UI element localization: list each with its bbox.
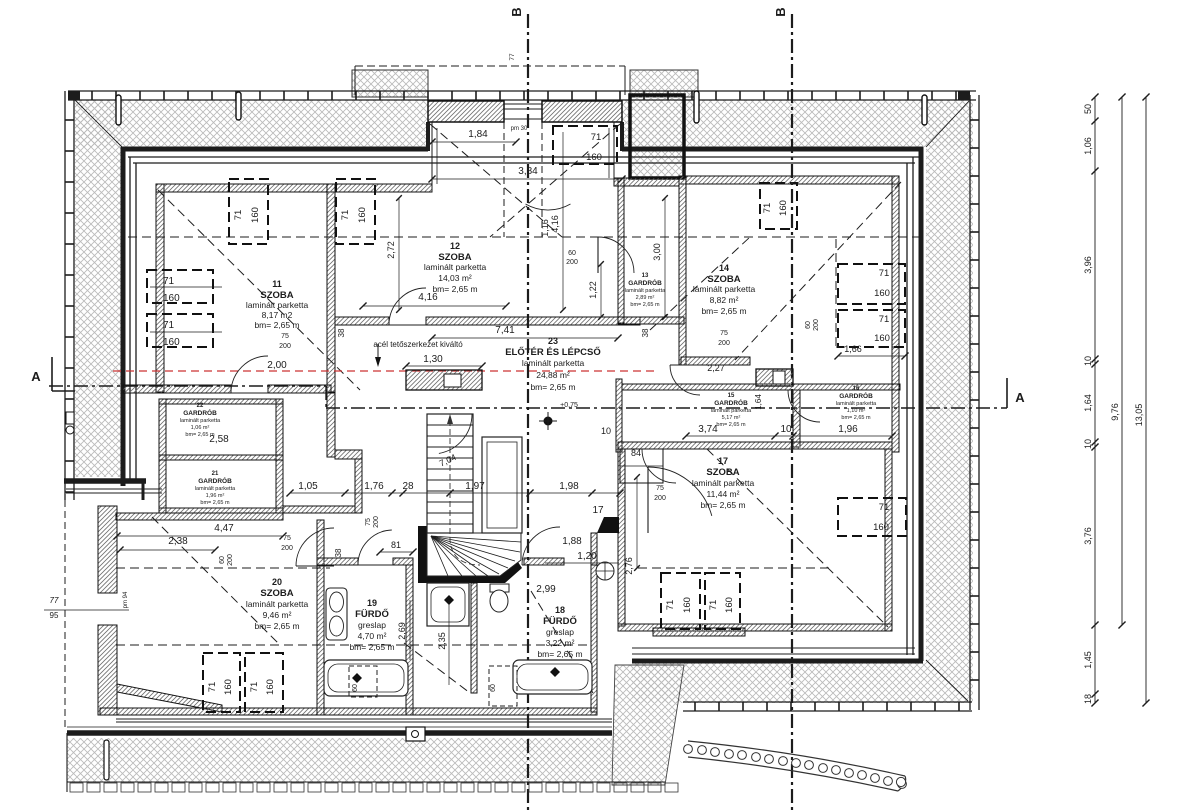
bath19 bathtub <box>324 660 408 696</box>
wall rooms 20-19 bottom south <box>100 708 597 715</box>
eave band corner caps <box>68 91 80 100</box>
eave band right <box>969 95 971 710</box>
svg-text:60: 60 <box>352 684 359 692</box>
svg-text:1,76: 1,76 <box>364 481 384 492</box>
svg-text:75: 75 <box>656 485 664 492</box>
stairwell landing <box>482 437 522 533</box>
svg-text:160: 160 <box>874 333 890 344</box>
rot dim lines <box>398 198 400 310</box>
svg-text:FÜRDŐ: FÜRDŐ <box>543 615 577 627</box>
hip diagonal room20 <box>152 517 280 645</box>
svg-text:GARDRÓB: GARDRÓB <box>628 278 662 287</box>
wall room20 north <box>116 513 283 520</box>
knee line vertical x836 <box>835 239 837 347</box>
svg-text:1,06: 1,06 <box>1083 137 1093 155</box>
roof overhang band top-left <box>75 100 428 147</box>
lintel hatched box room16 <box>756 369 793 386</box>
svg-text:75: 75 <box>283 535 291 542</box>
svg-text:71: 71 <box>233 210 244 221</box>
svg-text:1,84: 1,84 <box>468 129 488 140</box>
svg-text:1,30: 1,30 <box>423 354 443 365</box>
svg-text:+0,75: +0,75 <box>560 402 578 409</box>
round basin <box>596 562 614 580</box>
door room20 <box>296 528 334 566</box>
svg-text:71: 71 <box>340 210 351 221</box>
svg-text:3,00: 3,00 <box>652 243 662 261</box>
svg-text:bm= 2,65 m: bm= 2,65 m <box>630 302 660 308</box>
svg-text:laminált parketta: laminált parketta <box>693 284 756 294</box>
survey cross symbol <box>544 417 553 426</box>
eave band top <box>68 90 976 92</box>
door room14 <box>670 365 700 395</box>
svg-text:1,98: 1,98 <box>559 481 579 492</box>
svg-text:160: 160 <box>163 337 180 348</box>
svg-text:200: 200 <box>654 495 666 502</box>
block 637 outline thick <box>630 95 684 178</box>
eave line left lower dashed <box>64 500 66 727</box>
svg-text:28: 28 <box>402 481 414 492</box>
hip diagonal strip <box>404 643 470 693</box>
svg-text:3,22 m²: 3,22 m² <box>546 638 575 648</box>
svg-text:ELŐTÉR ÉS LÉPCSŐ: ELŐTÉR ÉS LÉPCSŐ <box>505 346 601 358</box>
door bath18 <box>522 527 560 565</box>
svg-text:4,47: 4,47 <box>214 523 234 534</box>
svg-text:2,38: 2,38 <box>168 536 188 547</box>
roof overhang band left <box>75 100 122 477</box>
svg-text:1,64: 1,64 <box>1083 394 1093 412</box>
dormer knee verticals <box>503 122 505 237</box>
lintel hatched box hall <box>406 370 482 390</box>
bath18 washing machine dashed <box>489 666 517 706</box>
svg-text:1,66: 1,66 <box>844 344 862 354</box>
wall bath18 north segs <box>524 558 564 565</box>
wall room14 west <box>679 176 686 365</box>
svg-text:5,17 m²: 5,17 m² <box>722 415 741 421</box>
hip diagonal room14 <box>735 182 901 360</box>
svg-text:71: 71 <box>591 132 602 143</box>
svg-text:8,17 m2: 8,17 m2 <box>262 310 293 320</box>
svg-text:2,76: 2,76 <box>624 557 634 575</box>
block between hall and room 14 hatched <box>630 95 684 178</box>
svg-text:1,97: 1,97 <box>465 481 485 492</box>
wall gardrobe15-16 north <box>622 384 900 390</box>
dim 3,84 line <box>432 179 622 181</box>
hip diagonal room11 <box>158 190 360 390</box>
svg-text:160: 160 <box>873 522 889 533</box>
mid dim row y493 <box>290 492 620 494</box>
svg-text:2,69: 2,69 <box>397 622 407 640</box>
dormer front wall left hatched <box>428 101 504 122</box>
svg-text:75: 75 <box>720 330 728 337</box>
svg-text:20: 20 <box>272 577 282 587</box>
svg-text:1,64: 1,64 <box>754 394 763 410</box>
svg-text:1,96 m²: 1,96 m² <box>206 493 225 499</box>
svg-text:200: 200 <box>227 554 234 566</box>
hip diagonal bath18 <box>531 591 593 693</box>
wall between room20 and bath19 <box>317 520 324 715</box>
downpipe top x697 <box>694 91 699 123</box>
svg-text:200: 200 <box>566 259 578 266</box>
curved gabion band with circles <box>688 741 905 776</box>
stair south wall thick <box>418 562 522 583</box>
stair west wall thick <box>418 526 427 583</box>
svg-text:160: 160 <box>586 152 602 163</box>
svg-text:1,22: 1,22 <box>588 281 598 299</box>
svg-text:bm= 2,65 m: bm= 2,65 m <box>432 284 477 294</box>
svg-text:1,10 m²: 1,10 m² <box>847 408 866 414</box>
svg-text:38: 38 <box>337 328 346 337</box>
wall gardrobe13 west <box>618 178 624 323</box>
hip diagonal room17 <box>707 449 888 627</box>
hip diagonal dormer left <box>430 124 562 237</box>
outer wall right thick <box>919 147 924 661</box>
svg-text:18: 18 <box>1083 694 1093 704</box>
walls gardrobe 22-21 block <box>159 399 166 513</box>
terrace left edge <box>66 733 68 792</box>
svg-text:12: 12 <box>450 241 460 251</box>
svg-text:1,20: 1,20 <box>577 551 597 562</box>
svg-text:bm= 2,65 m: bm= 2,65 m <box>530 382 575 392</box>
closet room17 NW <box>620 449 663 483</box>
svg-text:acél tetőszerkezet kiváltó: acél tetőszerkezet kiváltó <box>373 340 463 349</box>
eave corner mitre top-right <box>926 101 969 147</box>
door gardrobe13 <box>598 237 634 273</box>
wall room11 south y388 east segment <box>268 385 331 393</box>
svg-text:GARDRÓB: GARDRÓB <box>198 476 232 485</box>
roof strip lines top <box>128 156 920 158</box>
roof overhang band top-right <box>622 100 973 147</box>
wall bath19 north east seg <box>393 558 413 565</box>
svg-text:22: 22 <box>197 403 204 409</box>
wall between gardrobe15 and 16 <box>793 390 800 447</box>
svg-text:84: 84 <box>631 448 641 458</box>
svg-text:10: 10 <box>780 424 792 435</box>
svg-text:A: A <box>31 369 41 384</box>
wall gardrobe13 south <box>618 317 684 324</box>
terrace bottom edge <box>67 781 665 783</box>
svg-text:160: 160 <box>724 597 735 613</box>
svg-text:2,27: 2,27 <box>707 363 725 373</box>
svg-text:200: 200 <box>281 545 293 552</box>
svg-text:75: 75 <box>365 518 372 526</box>
svg-text:71: 71 <box>879 314 890 325</box>
wall room14 south <box>681 357 750 365</box>
svg-text:200: 200 <box>373 516 380 528</box>
svg-text:160: 160 <box>682 597 693 613</box>
svg-text:FÜRDŐ: FÜRDŐ <box>355 608 389 620</box>
svg-text:95: 95 <box>50 611 59 620</box>
svg-text:2,00: 2,00 <box>267 360 287 371</box>
wall room20 west lower <box>98 625 117 715</box>
svg-text:60: 60 <box>490 684 497 692</box>
svg-text:23: 23 <box>548 336 558 346</box>
roof window 71/160 hall north <box>553 126 617 164</box>
svg-text:bm= 2,65 m: bm= 2,65 m <box>200 500 230 506</box>
roof window 71/160 room17 east <box>838 498 906 536</box>
wall room11 west <box>156 184 164 392</box>
svg-text:75: 75 <box>281 333 289 340</box>
svg-text:1,05: 1,05 <box>298 481 318 492</box>
svg-text:200: 200 <box>279 343 291 350</box>
right dimension chain 2 <box>1121 97 1123 625</box>
svg-text:2,72: 2,72 <box>386 241 396 259</box>
knee line horiz x836-905 y347 <box>836 346 905 348</box>
svg-text:160: 160 <box>778 200 789 216</box>
door bath19 <box>358 530 392 565</box>
svg-text:160: 160 <box>357 207 368 223</box>
door room12 <box>389 288 426 325</box>
downpipe terrace <box>104 740 109 780</box>
svg-text:laminált parketta: laminált parketta <box>246 599 309 609</box>
svg-text:laminált parketta: laminált parketta <box>195 486 236 492</box>
svg-text:16: 16 <box>853 386 860 392</box>
hip diagonal dormer right <box>490 124 620 237</box>
dormer jamb right thick <box>620 122 624 151</box>
svg-text:bm= 2,65 m: bm= 2,65 m <box>537 649 582 659</box>
roof window 71/160 room14 east upper <box>838 264 905 304</box>
dormer recess side lines <box>431 122 433 192</box>
svg-text:pm 30: pm 30 <box>511 126 528 132</box>
outer wall top-left thick <box>121 147 428 152</box>
door stair top <box>439 414 472 453</box>
roof window 71/160 room20 south east <box>245 653 283 712</box>
svg-text:4,16: 4,16 <box>550 215 560 233</box>
shower tray <box>427 583 469 626</box>
knee line dashed y568 left <box>116 567 330 569</box>
svg-text:81: 81 <box>391 540 401 550</box>
wall hall west step <box>335 450 362 459</box>
svg-text:71: 71 <box>249 682 260 693</box>
svg-text:GARDRÓB: GARDRÓB <box>714 398 748 407</box>
wall rooms 11-12 north <box>156 184 432 192</box>
knee line dashed y645 <box>116 644 590 646</box>
svg-text:laminált parketta: laminált parketta <box>836 401 877 407</box>
right dimension chain 3 <box>1145 97 1147 703</box>
svg-text:bm= 2,65 m: bm= 2,65 m <box>254 320 299 330</box>
wall room17 south <box>618 624 892 631</box>
terrace bottom tick band <box>70 783 83 792</box>
svg-text:60: 60 <box>219 556 226 564</box>
svg-text:2,99: 2,99 <box>536 584 556 595</box>
roof window 71/160 room11 west lower <box>147 314 213 347</box>
svg-text:60: 60 <box>568 250 576 257</box>
svg-text:1,06 m²: 1,06 m² <box>191 425 210 431</box>
svg-text:bm= 2,65 m: bm= 2,65 m <box>700 500 745 510</box>
svg-text:3,96: 3,96 <box>1083 256 1093 274</box>
svg-text:pm 94: pm 94 <box>123 591 129 608</box>
section line B' vertical <box>791 14 793 812</box>
svg-text:13: 13 <box>642 273 649 279</box>
roof window 71/160 room12 north <box>336 179 375 244</box>
svg-text:B: B <box>509 7 524 16</box>
svg-text:bm= 2,65 m: bm= 2,65 m <box>841 415 871 421</box>
svg-text:71: 71 <box>665 600 676 611</box>
svg-text:15: 15 <box>728 393 735 399</box>
svg-text:2,89 m²: 2,89 m² <box>636 295 655 301</box>
wall room14 north <box>679 176 899 184</box>
svg-text:160: 160 <box>265 679 276 695</box>
svg-text:1,88: 1,88 <box>562 536 582 547</box>
svg-text:bm= 2,65 m: bm= 2,65 m <box>716 422 746 428</box>
svg-text:200: 200 <box>813 319 820 331</box>
knee line dashed y568 right <box>638 567 832 569</box>
svg-text:2,35: 2,35 <box>437 632 447 650</box>
red dashed line <box>113 370 655 372</box>
svg-text:10: 10 <box>1083 439 1093 449</box>
svg-text:71: 71 <box>879 502 890 513</box>
svg-text:SZOBA: SZOBA <box>706 467 739 478</box>
svg-text:71: 71 <box>762 203 773 214</box>
svg-text:1,45: 1,45 <box>1083 651 1093 669</box>
svg-text:160: 160 <box>223 679 234 695</box>
svg-text:17: 17 <box>592 505 604 516</box>
dormer jamb left thick <box>426 122 430 151</box>
svg-text:71: 71 <box>879 268 890 279</box>
svg-text:laminált parketta: laminált parketta <box>424 262 487 272</box>
wall bath19 north west seg <box>317 558 358 565</box>
svg-text:GARDRÓB: GARDRÓB <box>839 391 873 400</box>
WC bath18 <box>490 584 509 592</box>
bath19 washing machine dashed <box>349 666 377 697</box>
svg-text:38: 38 <box>334 548 343 557</box>
stair walking line <box>450 420 480 565</box>
section line A dash-dot left <box>49 385 326 387</box>
outer wall bottom-right thick <box>632 659 923 664</box>
wall between bath19 and bath18 <box>406 565 413 715</box>
wall strip x471 <box>471 583 477 693</box>
roof window 71/160 room17 south east <box>705 573 740 629</box>
right dimension chain 1 <box>1094 97 1096 703</box>
wall room17 block north <box>618 442 892 449</box>
svg-text:laminált parketta: laminált parketta <box>692 478 755 488</box>
svg-text:10: 10 <box>1083 356 1093 366</box>
wall gardrobe13 north <box>614 178 679 186</box>
svg-text:17: 17 <box>718 456 728 466</box>
eave corner mitre bottom-right <box>926 660 968 701</box>
svg-text:200: 200 <box>718 340 730 347</box>
roof overhang band right <box>926 100 973 663</box>
wall hall west <box>327 393 335 457</box>
dormer window lines <box>504 103 542 105</box>
roof window 71/160 room14 north <box>760 183 797 229</box>
roof wedge bottom-center <box>612 665 684 785</box>
wall room17 south window notches <box>653 628 745 636</box>
svg-text:160: 160 <box>874 288 890 299</box>
svg-text:10: 10 <box>601 426 611 436</box>
svg-text:18: 18 <box>555 605 565 615</box>
svg-text:11,44 m²: 11,44 m² <box>707 489 740 499</box>
downpipe top x238 <box>236 92 241 120</box>
svg-text:77: 77 <box>509 53 516 61</box>
svg-text:8,82 m²: 8,82 m² <box>710 295 739 305</box>
roof strip bottom-left lines <box>116 718 612 720</box>
leader arrow down <box>375 357 381 367</box>
door room17 big <box>648 467 712 516</box>
door room16 <box>788 390 820 422</box>
wall hall east / gardrobe15 west <box>616 379 622 452</box>
svg-text:14,03 m²: 14,03 m² <box>438 273 472 283</box>
svg-text:50: 50 <box>1083 104 1093 114</box>
svg-text:71: 71 <box>708 600 719 611</box>
dormer bump right hatched <box>630 70 698 97</box>
svg-text:7,41: 7,41 <box>495 325 515 336</box>
svg-text:laminált parketta: laminált parketta <box>522 358 585 368</box>
dims room14 south row <box>686 435 892 437</box>
outer wall top-right thick <box>622 147 923 152</box>
svg-text:greslap: greslap <box>546 627 574 637</box>
stair winder fan <box>427 533 521 576</box>
svg-text:21: 21 <box>212 471 219 477</box>
svg-text:2,58: 2,58 <box>209 434 229 445</box>
roof strip lines left <box>129 157 131 480</box>
svg-text:laminált parketta: laminált parketta <box>711 408 752 414</box>
terrace top thick line <box>67 730 612 736</box>
door room11 <box>231 356 268 393</box>
knee line dashed y237 <box>128 236 920 238</box>
svg-text:bm= 2,65 m: bm= 2,65 m <box>254 621 299 631</box>
eave band left <box>64 91 66 500</box>
eave corner mitre top-left <box>75 100 122 147</box>
svg-text:bm= 2,65 m: bm= 2,65 m <box>349 642 394 652</box>
svg-text:9,46 m²: 9,46 m² <box>263 610 292 620</box>
svg-text:B: B <box>773 7 788 16</box>
wall room12 south y317 east segment <box>426 317 640 325</box>
bath18 bathtub <box>513 660 592 694</box>
stair upper flight <box>427 414 473 533</box>
roof overhang band bottom-right <box>632 663 973 703</box>
svg-text:laminált parketta: laminált parketta <box>246 300 309 310</box>
svg-text:160: 160 <box>250 207 261 223</box>
section A left bracket <box>51 357 53 391</box>
svg-text:bm= 2,65 m: bm= 2,65 m <box>701 306 746 316</box>
wall room20 west upper <box>98 506 117 593</box>
svg-text:3,74: 3,74 <box>698 424 718 435</box>
downpipe top-left <box>116 95 121 125</box>
svg-text:77: 77 <box>50 596 59 605</box>
dormer front wall right hatched <box>542 101 622 122</box>
wall between rooms 11 and 12 <box>327 184 335 392</box>
svg-text:19: 19 <box>367 598 377 608</box>
section line A jog <box>325 386 327 408</box>
wall bath18 east <box>591 565 597 712</box>
svg-text:greslap: greslap <box>358 620 386 630</box>
svg-text:1,96: 1,96 <box>838 424 858 435</box>
wall corridor south x283-355 <box>283 506 355 513</box>
svg-text:1,16: 1,16 <box>540 219 550 237</box>
svg-text:4,70 m²: 4,70 m² <box>358 631 387 641</box>
roof strip lines bottom-right <box>632 653 915 655</box>
wall room14 east <box>892 176 899 452</box>
svg-text:9,76: 9,76 <box>1110 403 1120 421</box>
eave band bottom right <box>683 701 972 703</box>
svg-text:160: 160 <box>163 293 180 304</box>
svg-text:38: 38 <box>641 328 650 337</box>
roof window 71/160 room20 south west <box>203 653 240 712</box>
door arc dormer <box>526 204 571 210</box>
svg-text:71: 71 <box>163 276 175 287</box>
wall room17 west <box>618 449 625 626</box>
terrace hatched band <box>67 738 612 782</box>
bath19 double washbasin <box>326 588 347 640</box>
section A right bracket <box>1006 378 1008 408</box>
roof window 71/160 room17 south west <box>661 573 700 629</box>
svg-text:60: 60 <box>805 321 812 329</box>
svg-text:3,76: 3,76 <box>1083 527 1093 545</box>
svg-text:laminált parketta: laminált parketta <box>180 418 221 424</box>
hip diagonal hall up <box>650 237 750 330</box>
svg-text:13,05: 13,05 <box>1134 404 1144 427</box>
wall step near bath18 north <box>597 517 619 533</box>
